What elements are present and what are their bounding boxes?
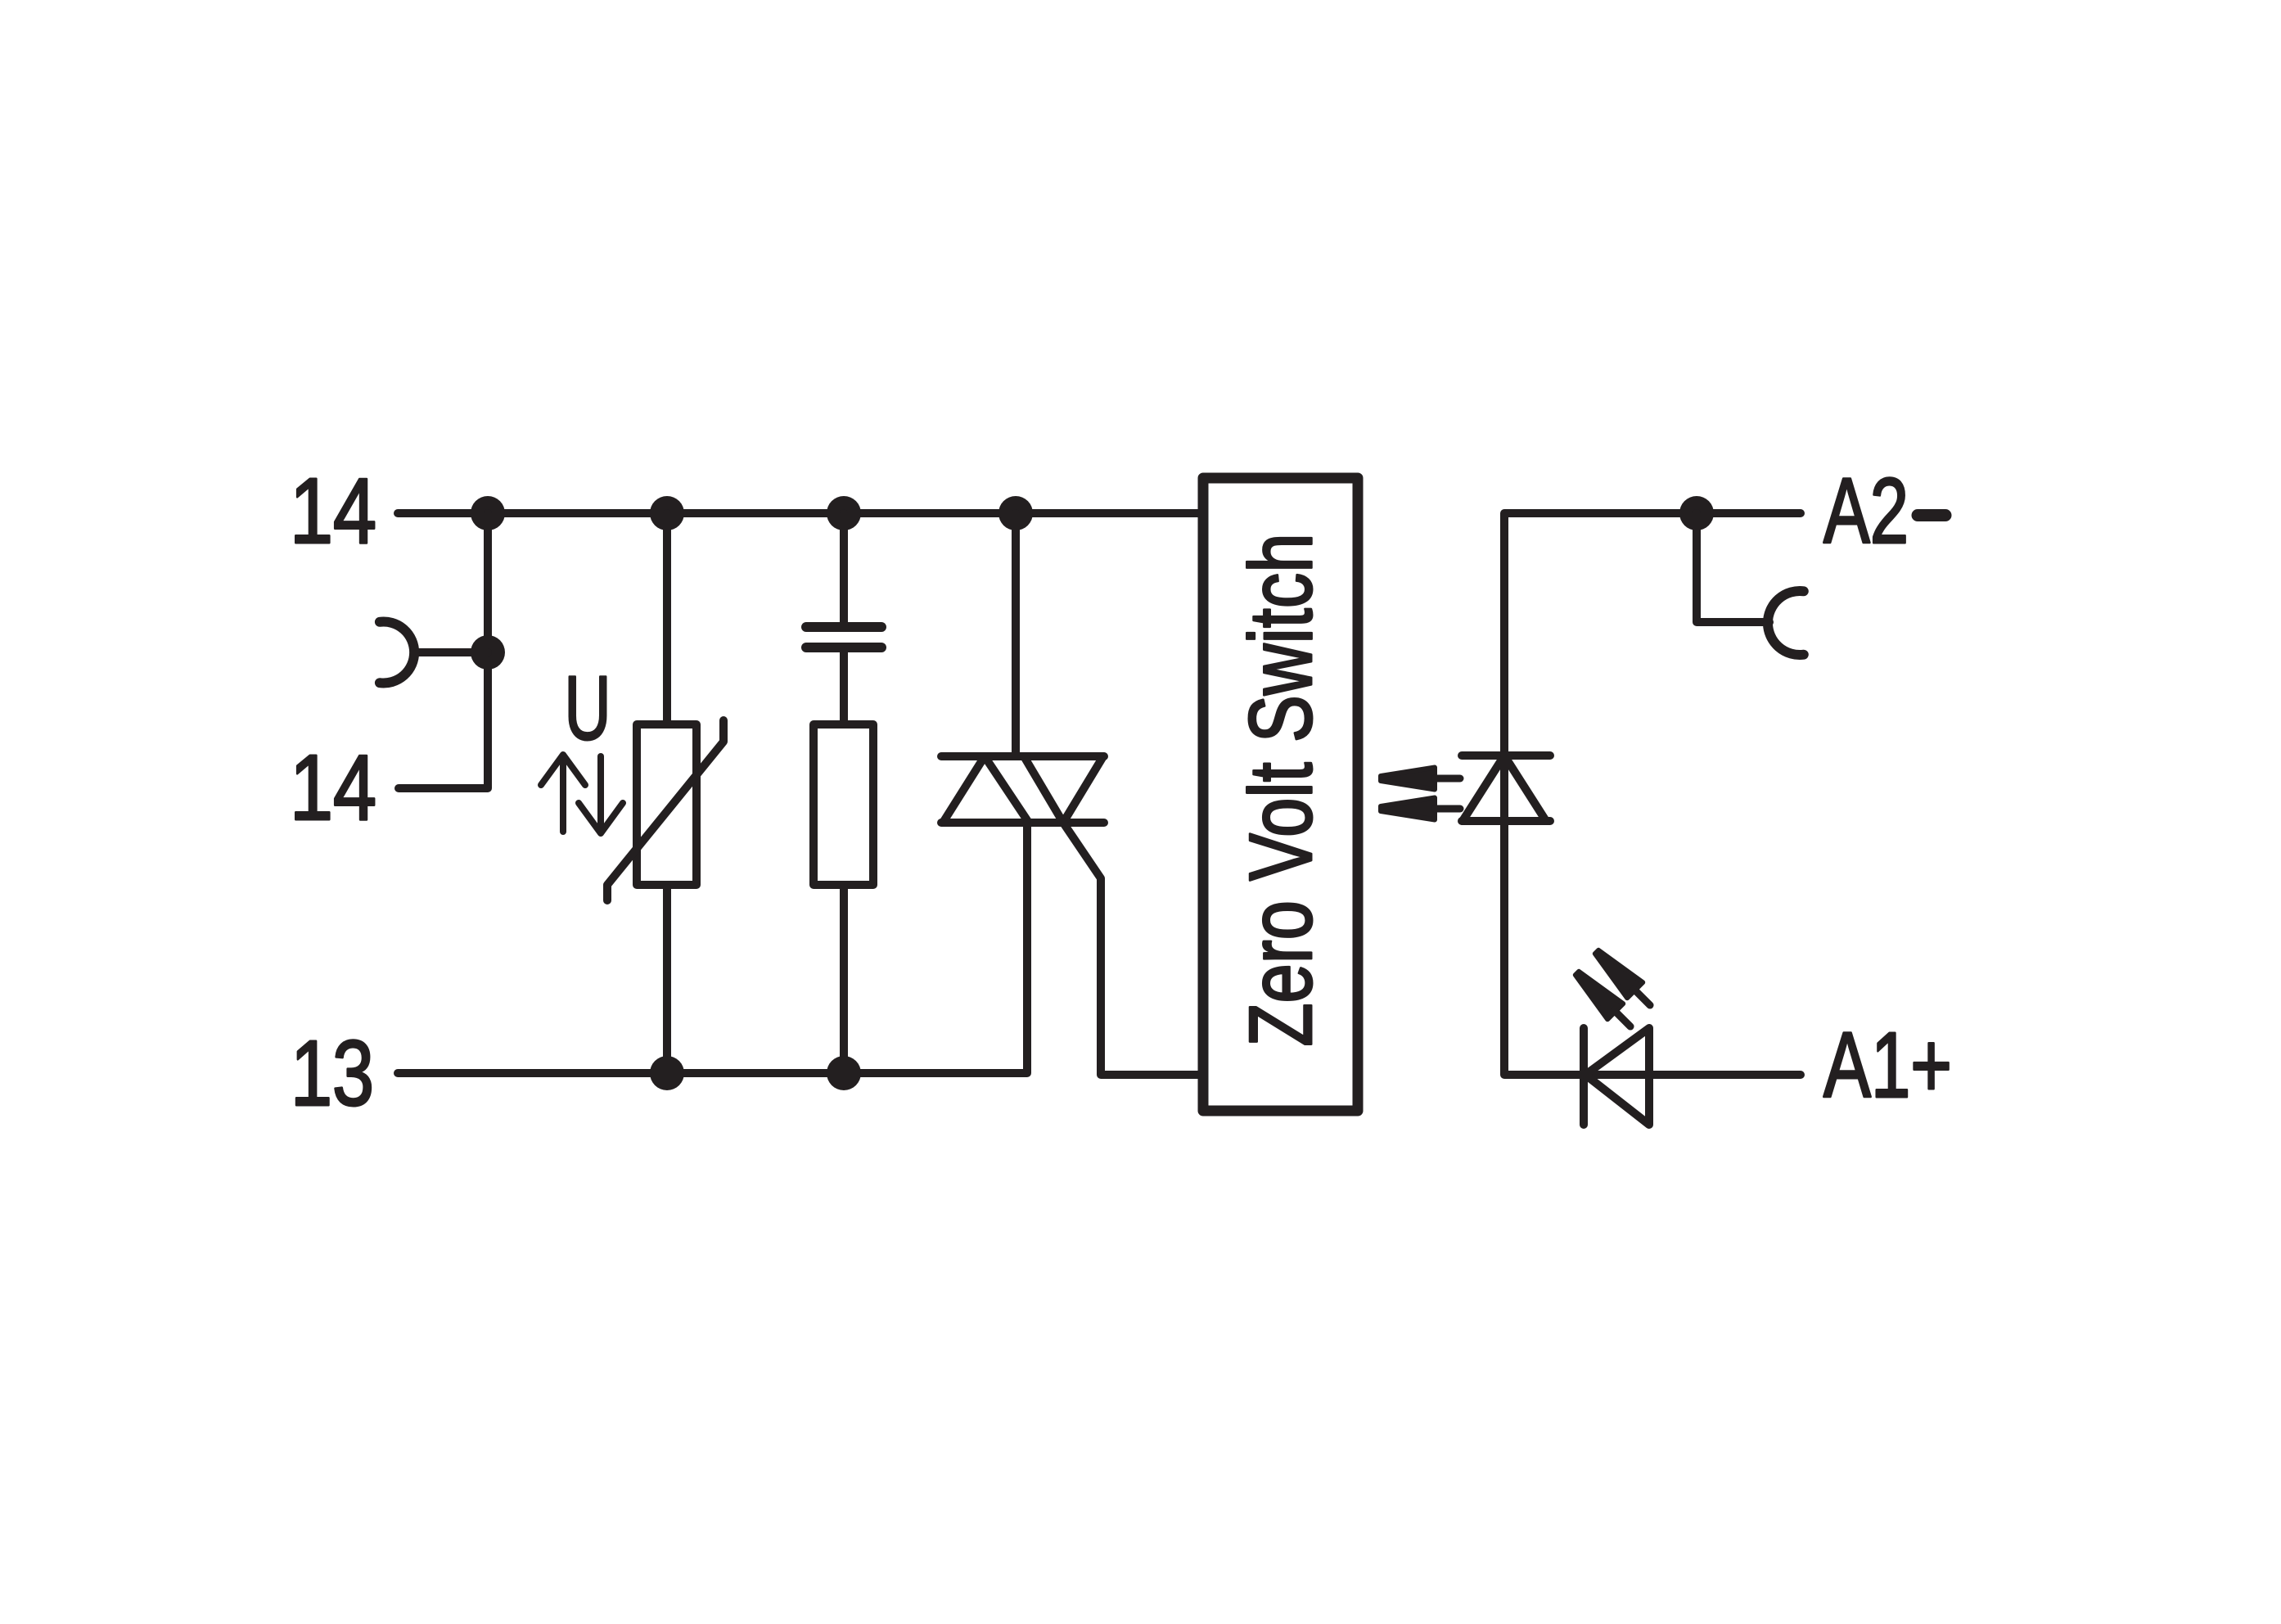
capacitor C1 plates <box>806 627 881 647</box>
LED D1 cathode bar <box>1580 1028 1588 1125</box>
svg-text:14: 14 <box>290 736 376 839</box>
plug contact (socket, left) <box>380 622 414 683</box>
Zero Volt Switch label <box>1231 534 1331 1047</box>
wire: bottom rail node 13 and triac MT2 lead <box>398 823 1027 1073</box>
junction dot: bottom rail / varistor branch <box>650 1056 684 1090</box>
LED D1 triangle <box>1585 1028 1649 1125</box>
svg-text:14: 14 <box>290 459 376 562</box>
wire: 14 branch down to lower 14 terminal <box>399 513 488 788</box>
Zero Volt Switch block U1 <box>1203 478 1358 1111</box>
varistor up arrow <box>541 755 585 832</box>
varistor RV1 diagonal <box>607 720 724 900</box>
junction dot: plug tap <box>471 635 505 670</box>
svg-text:A1+: A1+ <box>1823 1013 1952 1116</box>
varistor RV1 body <box>637 724 696 885</box>
wire: varistor bottom lead <box>663 888 671 1073</box>
wire: triac top lead <box>1012 513 1020 756</box>
svg-text:A2: A2 <box>1823 459 1909 562</box>
wire: varistor top lead <box>663 513 671 721</box>
optocoupler light arrow 2 <box>1381 798 1460 820</box>
wire: capacitor to resistor lead <box>840 652 848 721</box>
wire: capacitor top lead <box>840 513 848 623</box>
resistor R1 body <box>814 724 873 885</box>
optocoupler light arrow 1 <box>1381 768 1460 790</box>
svg-text:Zero Volt Switch: Zero Volt Switch <box>1231 534 1331 1047</box>
junction dot: top rail / triac branch <box>999 496 1033 530</box>
wire: output side A2 to A1 <box>1504 513 1801 1075</box>
svg-text:13: 13 <box>291 1022 374 1125</box>
photo-triac D2 <box>1462 756 1550 821</box>
triac Q1 <box>941 756 1104 823</box>
junction dot: bottom rail / resistor branch <box>827 1056 861 1090</box>
varistor down arrow <box>579 756 623 833</box>
junction dot: top rail / varistor branch <box>650 496 684 530</box>
wire: plug contact stub <box>417 648 488 656</box>
wire: A2 plug stub <box>1697 513 1769 622</box>
junction dot: top rail / RC branch <box>827 496 861 530</box>
svg-text:U: U <box>565 658 611 759</box>
wire: triac gate to Zero Volt Switch <box>1063 823 1198 1075</box>
wire: top rail node 14 <box>398 509 1198 517</box>
junction dot: top rail / plug branch <box>471 496 505 530</box>
junction dot: A2 / plug branch <box>1679 496 1714 530</box>
wire: resistor bottom lead <box>840 888 848 1073</box>
plug contact (socket, right) <box>1768 591 1804 655</box>
LED light arrow 2 <box>1569 965 1638 1034</box>
LED light arrow 1 <box>1589 944 1657 1013</box>
